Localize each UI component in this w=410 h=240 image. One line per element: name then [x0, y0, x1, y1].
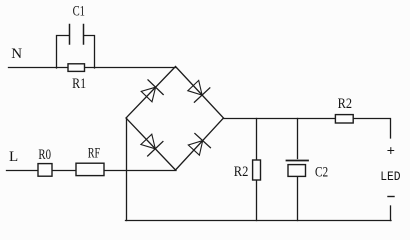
svg-text:C1: C1	[73, 4, 85, 20]
svg-text:R1: R1	[72, 76, 86, 92]
svg-text:N: N	[11, 46, 22, 62]
svg-text:RF: RF	[88, 146, 100, 162]
svg-text:LED: LED	[380, 169, 401, 184]
svg-text:R2: R2	[338, 96, 352, 112]
svg-text:R2: R2	[234, 164, 249, 180]
svg-text:C2: C2	[315, 164, 328, 180]
svg-text:L: L	[9, 149, 18, 165]
svg-text:R0: R0	[38, 147, 51, 163]
svg-text:+: +	[387, 144, 395, 160]
